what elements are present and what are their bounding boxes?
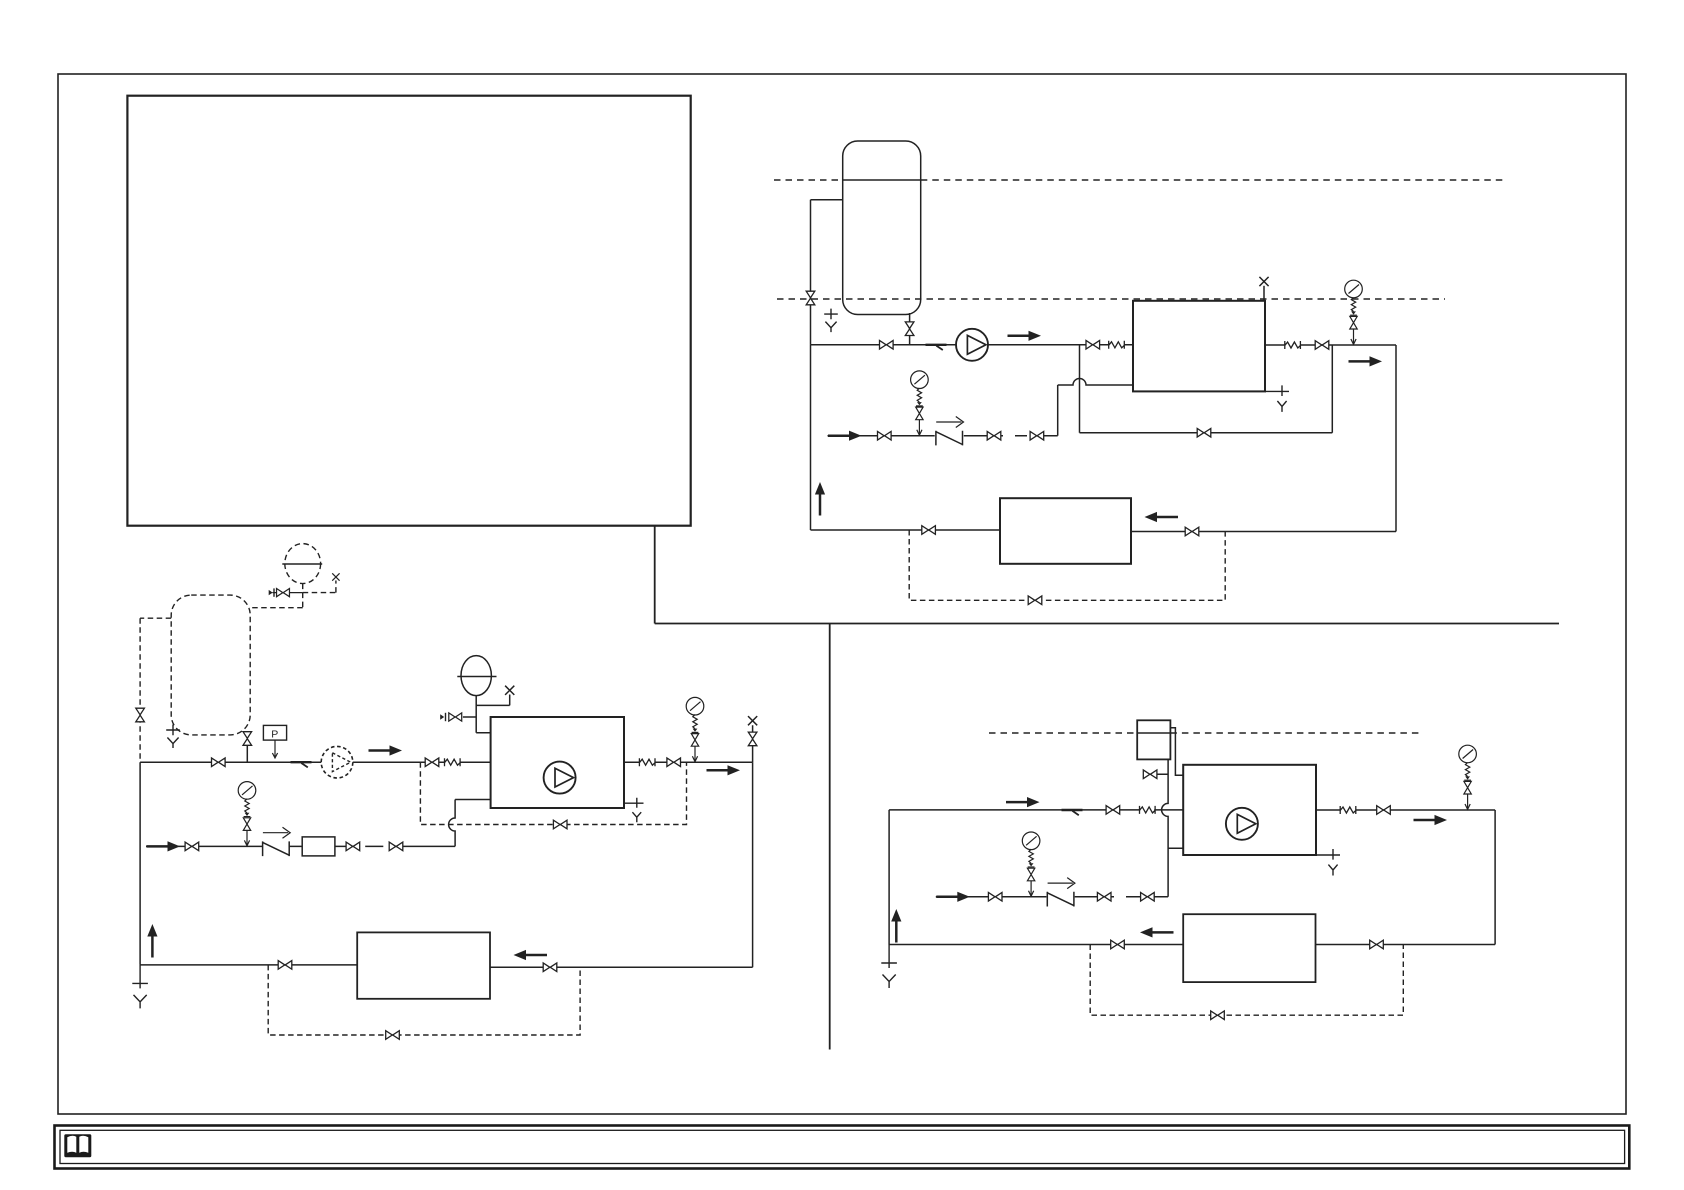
svg-text:P: P [271,728,278,740]
